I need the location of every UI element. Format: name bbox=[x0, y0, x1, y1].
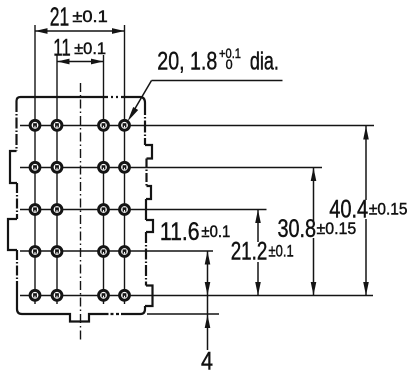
svg-text:±0.1: ±0.1 bbox=[269, 242, 294, 261]
svg-text:4: 4 bbox=[201, 347, 213, 375]
svg-text:±0.1: ±0.1 bbox=[72, 7, 107, 26]
svg-text:dia.: dia. bbox=[250, 48, 279, 76]
svg-text:±0.1: ±0.1 bbox=[201, 222, 230, 241]
svg-text:21.2: 21.2 bbox=[231, 238, 268, 266]
svg-text:20, 1.8: 20, 1.8 bbox=[157, 47, 217, 75]
svg-text:0: 0 bbox=[226, 57, 233, 72]
svg-text:±0.1: ±0.1 bbox=[74, 39, 106, 58]
svg-text:11.6: 11.6 bbox=[160, 218, 200, 246]
svg-text:30.8: 30.8 bbox=[278, 215, 317, 243]
svg-text:11: 11 bbox=[53, 35, 70, 62]
svg-text:±0.15: ±0.15 bbox=[317, 219, 357, 238]
svg-text:21: 21 bbox=[50, 1, 70, 31]
svg-text:±0.15: ±0.15 bbox=[369, 200, 408, 219]
